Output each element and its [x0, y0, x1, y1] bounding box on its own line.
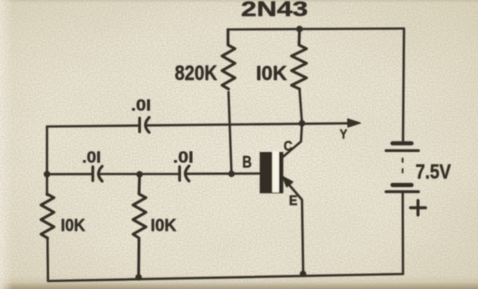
wire emitter lead with vertical to bottom bus: [282, 177, 303, 274]
resistor R3 10K: [41, 194, 86, 238]
wire top supply bus: [228, 29, 404, 30]
svg-text:.0I: .0I: [173, 149, 194, 166]
arrowhead Y output: [348, 119, 361, 127]
node: Y wire / collector / R2 junction: [299, 120, 306, 127]
svg-text:.0I: .0I: [82, 150, 101, 167]
capacitor C2 .01: [82, 150, 102, 182]
wire collector lead: [283, 123, 302, 156]
wire bottom return bus: [48, 274, 403, 281]
capacitor C1 .01: [131, 98, 151, 133]
resistor R1 820K: [175, 30, 235, 90]
wire Y output line (left segment): [47, 124, 138, 127]
svg-text:E: E: [289, 193, 298, 208]
wire base line (segment 2): [98, 173, 178, 175]
node: bottom bus / emitter junction: [300, 271, 307, 278]
svg-text:820K: 820K: [175, 62, 218, 85]
svg-text:7.5V: 7.5V: [415, 161, 451, 184]
node: base wire / R4 junction: [136, 171, 143, 178]
svg-text:I0K: I0K: [256, 63, 288, 85]
svg-text:I0K: I0K: [151, 215, 177, 235]
emitter arrow (PNP, pointing into base): [282, 176, 293, 187]
battery B1 7.5V: [386, 143, 451, 191]
svg-text:.0I: .0I: [131, 98, 151, 115]
svg-text:B: B: [242, 154, 252, 172]
svg-text:Y: Y: [340, 126, 348, 141]
svg-text:2N43: 2N43: [241, 0, 308, 21]
node: top bus / R2 junction: [296, 26, 303, 33]
wire battery rail bottom: [402, 192, 405, 274]
capacitor C3 .01: [173, 149, 194, 181]
wire R2 bottom lead down to collector node: [300, 89, 303, 123]
wire base line (segment 3, to transistor base): [185, 172, 260, 175]
wire Y output line (right segment) with arrow: [145, 123, 349, 125]
resistor R2 10K (collector load): [256, 29, 307, 89]
label + (battery positive): [411, 201, 426, 216]
node: left rail / base wire junction: [44, 171, 51, 178]
svg-text:I0K: I0K: [61, 215, 86, 235]
wire R1 bottom lead down to base node (crosses Y wire, no dot): [229, 92, 232, 174]
wire left rail (Y corner down to bottom corner, through R3): [46, 127, 48, 196]
wire R3 bottom lead: [46, 238, 49, 281]
transistor Q1 2N43 body (base bar): [260, 151, 284, 193]
svg-text:C: C: [284, 139, 293, 154]
resistor R4 10K: [133, 174, 177, 277]
wire battery rail top: [403, 29, 404, 142]
node: bottom bus / R4 junction: [135, 274, 142, 281]
node: base wire / R1 lead junction: [228, 171, 235, 178]
wire base line (segment 1): [47, 173, 92, 175]
